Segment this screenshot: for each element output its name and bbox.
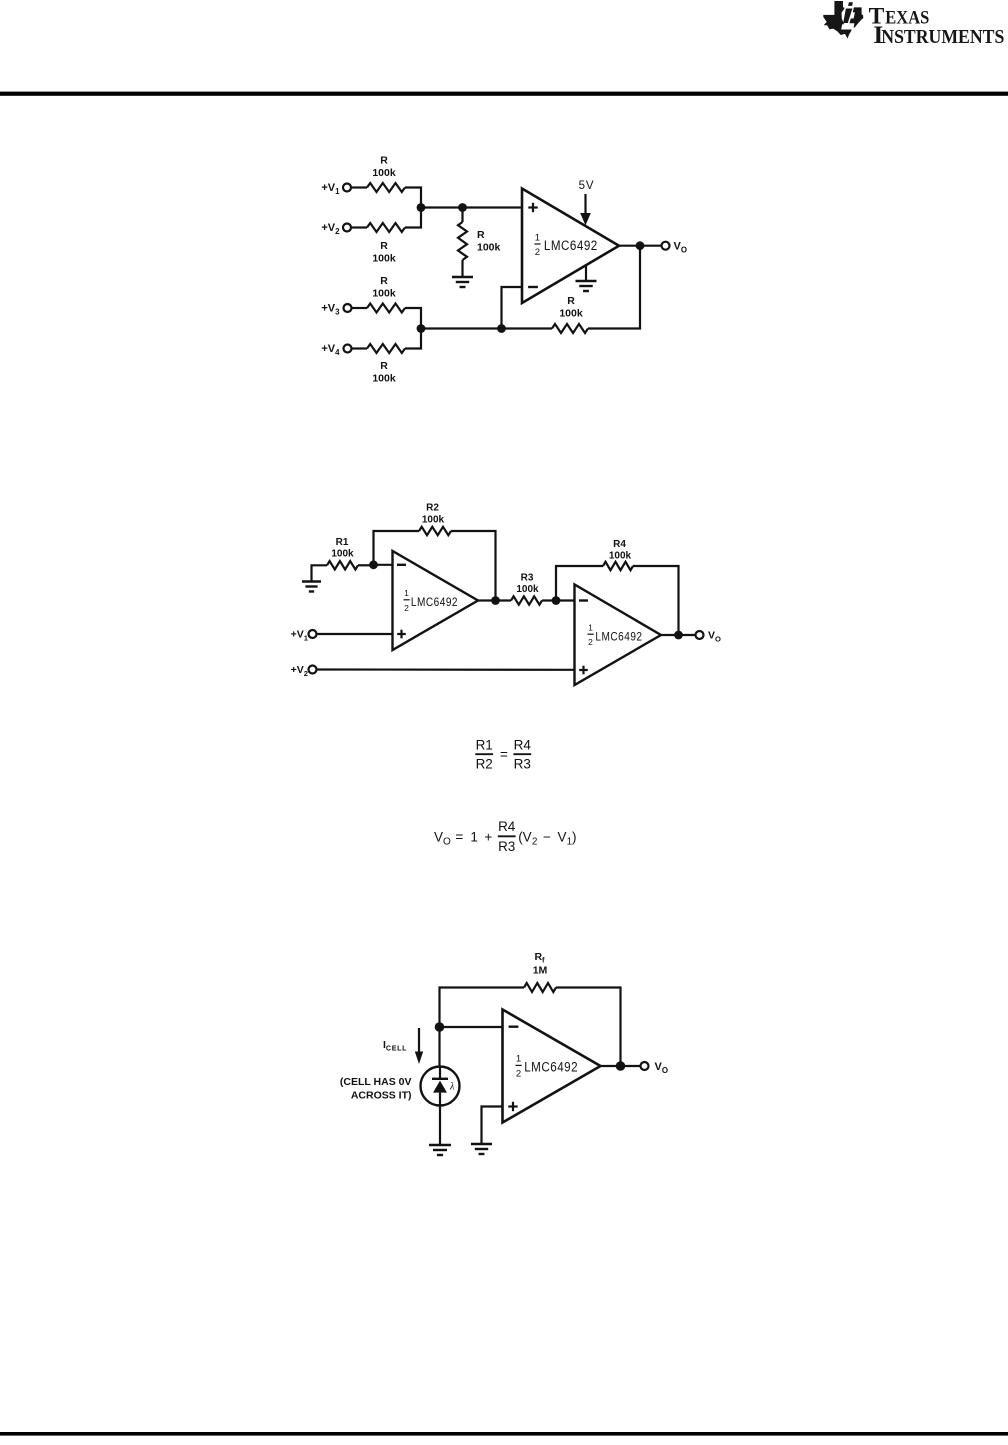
U2 - input sign	[579, 599, 588, 601]
svg-text:1M: 1M	[533, 965, 548, 977]
svg-text:R: R	[380, 155, 388, 167]
svg-text:R: R	[380, 240, 388, 252]
wire R to node A	[405, 207, 421, 228]
svg-text:(CELL HAS 0V: (CELL HAS 0V	[340, 1076, 412, 1088]
svg-text:+: +	[484, 829, 492, 844]
svg-text:+V4: +V4	[321, 343, 340, 357]
wire +V2 to U2 noninverting input	[317, 668, 576, 670]
svg-text:1: 1	[588, 623, 593, 633]
ground (op-amp V-)	[585, 266, 587, 282]
output node junction	[616, 1061, 626, 1071]
bottom horizontal rule	[0, 1432, 1008, 1436]
wire node A to photocell	[438, 1027, 440, 1067]
ICELL arrow	[418, 1028, 420, 1053]
svg-text:2: 2	[404, 603, 409, 613]
svg-text:R4: R4	[613, 539, 626, 550]
wire R to node C	[405, 308, 421, 328]
svg-text:NSTRUMENTS: NSTRUMENTS	[881, 26, 1004, 48]
wire node A to inverting input	[440, 1026, 504, 1028]
photocell cathode bar	[432, 1078, 448, 1080]
svg-text:VO: VO	[708, 630, 721, 644]
equation VO = 1 + R4/R3 (V2 - V1)	[434, 819, 577, 854]
svg-text:R3: R3	[521, 573, 534, 584]
svg-text:R1: R1	[476, 738, 493, 753]
svg-text:=: =	[455, 829, 463, 844]
svg-text:100k: 100k	[372, 167, 396, 179]
node A junction (U1 inverting)	[369, 560, 378, 569]
svg-text:1: 1	[535, 232, 540, 243]
svg-text:): )	[572, 829, 577, 844]
svg-text:V: V	[558, 829, 567, 844]
op-amp U2 1/2 LMC6492 triangle	[575, 585, 662, 686]
op-amp + input sign	[528, 206, 537, 208]
svg-text:VO: VO	[674, 241, 687, 255]
terminal VO	[641, 1062, 649, 1070]
feedback wire top left	[440, 988, 525, 1028]
wire +V1 to U1 noninverting input	[317, 633, 394, 635]
photocell internal wires	[439, 1067, 441, 1079]
wire node A to inverting input of U1	[374, 564, 394, 566]
feedback wire up and across (R4 path)	[556, 566, 603, 601]
svg-text:100k: 100k	[559, 308, 583, 320]
grounding resistor R 100k (vertical)	[461, 208, 463, 223]
svg-text:+V2: +V2	[291, 664, 308, 678]
wire node D to inverting input	[502, 287, 524, 329]
output node junction	[636, 241, 645, 250]
svg-text:5V: 5V	[579, 180, 595, 192]
resistor R 100k (V1 input)	[367, 183, 405, 192]
wire U1 output to R3	[478, 599, 511, 601]
U1 - input sign	[397, 564, 406, 566]
node D junction (U2 output)	[674, 631, 683, 640]
svg-text:+V1: +V1	[291, 629, 309, 643]
svg-text:R3: R3	[514, 757, 531, 772]
svg-text:R2: R2	[476, 757, 493, 772]
feedback resistor R 100k	[552, 324, 588, 333]
svg-text:2: 2	[532, 837, 538, 848]
wire op-amp output to VO	[619, 245, 662, 247]
svg-text:R2: R2	[426, 503, 439, 514]
svg-text:100k: 100k	[477, 242, 501, 254]
op-amp U1 1/2 LMC6492 triangle	[393, 551, 479, 650]
svg-text:R: R	[380, 360, 388, 372]
wire U2 output to VO	[661, 634, 696, 636]
resistor R 100k (V3 input)	[367, 304, 405, 313]
svg-text:R: R	[567, 295, 575, 307]
node C junction (U2 inverting)	[552, 596, 561, 605]
ground (below grounding resistor)	[452, 276, 473, 278]
svg-text:100k: 100k	[516, 584, 539, 595]
svg-text:100k: 100k	[422, 515, 445, 526]
ground (R1 left end)	[312, 565, 328, 581]
svg-text:100k: 100k	[372, 288, 396, 300]
svg-text:ICELL: ICELL	[383, 1039, 407, 1053]
svg-text:=: =	[500, 747, 508, 762]
svg-text:R3: R3	[498, 839, 515, 854]
op-amp U1 1/2 LMC6492 triangle	[503, 1010, 601, 1123]
svg-text:2: 2	[516, 1068, 521, 1079]
op-amp + input sign	[508, 1105, 517, 1107]
svg-text:−: −	[543, 829, 551, 844]
node A junction	[417, 203, 426, 212]
wire R3 to node C	[542, 599, 575, 601]
resistor Rf 1M	[524, 983, 556, 992]
svg-text:100k: 100k	[372, 253, 396, 265]
equation R1/R2 = R4/R3	[475, 738, 531, 772]
wire V2 to R	[351, 226, 367, 228]
wire R to node C	[405, 330, 421, 349]
svg-text:2: 2	[535, 247, 540, 258]
terminal VO	[696, 631, 704, 639]
wire photocell to ground	[439, 1106, 441, 1146]
U2 + input sign	[579, 669, 588, 671]
svg-text:ACROSS IT): ACROSS IT)	[351, 1090, 412, 1102]
svg-text:1: 1	[516, 1054, 521, 1065]
resistor R 100k (V2 input)	[367, 223, 405, 232]
svg-text:2: 2	[588, 637, 593, 647]
noninverting input wire to ground	[482, 1107, 504, 1145]
svg-text:100k: 100k	[331, 549, 354, 560]
top horizontal rule	[0, 92, 1008, 96]
wire R1 to node A	[358, 564, 374, 566]
node A junction (inverting)	[435, 1022, 445, 1032]
op-amp - input sign	[528, 286, 538, 288]
photocell diode triangle	[433, 1081, 447, 1093]
svg-text:R4: R4	[514, 738, 532, 753]
node D junction (inverting tap)	[497, 324, 506, 333]
op-amp U1 1/2 LMC6492 triangle	[522, 189, 619, 304]
svg-text:+V3: +V3	[321, 303, 340, 317]
svg-text:+V1: +V1	[321, 182, 340, 196]
U1 + input sign	[397, 633, 406, 635]
wire feedback resistor to node C	[421, 327, 552, 329]
svg-text:R: R	[477, 229, 485, 241]
ground (photocell)	[429, 1144, 451, 1146]
svg-text:+V2: +V2	[321, 222, 340, 236]
resistor R3 100k	[511, 596, 542, 604]
wire op-amp output to VO	[601, 1065, 642, 1067]
resistor R1 100k	[327, 561, 358, 569]
svg-text:100k: 100k	[372, 373, 396, 385]
resistor R4 100k	[603, 562, 633, 570]
node C junction	[417, 324, 426, 333]
svg-text:VO: VO	[655, 1061, 668, 1075]
node B junction	[458, 203, 467, 212]
feedback wire from output node	[588, 246, 640, 329]
svg-text:R1: R1	[336, 537, 349, 548]
terminal VO	[662, 242, 670, 250]
svg-text:Rf: Rf	[534, 951, 545, 965]
Texas Instruments logo: Texas-map icon	[823, 1, 863, 39]
svg-text:λ: λ	[449, 1082, 455, 1093]
svg-text:R: R	[380, 275, 388, 287]
wire R to node A	[405, 188, 421, 209]
wire R2 to output node of U1	[451, 531, 496, 601]
wire V1 to R	[351, 186, 367, 188]
ground (noninverting input)	[471, 1143, 492, 1145]
svg-text:LMC6492: LMC6492	[544, 237, 598, 253]
svg-text:(V: (V	[518, 829, 532, 844]
svg-text:LMC6492: LMC6492	[595, 631, 642, 644]
resistor R 100k (V4 input)	[367, 344, 405, 353]
svg-text:LMC6492: LMC6492	[411, 596, 458, 609]
node B junction (U1 output)	[491, 596, 500, 605]
feedback wire up and across (R2 path)	[374, 531, 420, 565]
feedback wire top right	[556, 988, 621, 1067]
wire V3 to R	[352, 307, 368, 309]
5V supply arrow	[584, 194, 586, 215]
photocell (circle)	[421, 1067, 460, 1106]
svg-text:1: 1	[404, 588, 409, 598]
op-amp - input sign	[509, 1025, 519, 1027]
svg-text:VO: VO	[434, 829, 451, 847]
svg-text:LMC6492: LMC6492	[524, 1058, 578, 1074]
wire node A to noninverting input	[421, 206, 523, 208]
resistor R2 100k	[419, 527, 451, 535]
svg-text:100k: 100k	[609, 551, 632, 562]
wire R4 to output node of U2	[633, 566, 679, 635]
wire V4 to R	[352, 347, 368, 349]
svg-text:R4: R4	[498, 819, 516, 834]
svg-text:1: 1	[470, 829, 478, 844]
